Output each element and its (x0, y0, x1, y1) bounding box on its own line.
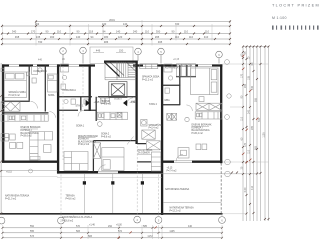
svg-text:730: 730 (38, 40, 43, 44)
washer X-boxes right unit (167, 113, 172, 120)
svg-text:340: 340 (12, 30, 17, 34)
entry canopy outline (90, 47, 133, 64)
svg-text:292: 292 (108, 225, 113, 228)
wall right izba bottom (163, 104, 181, 106)
svg-text:120: 120 (118, 35, 123, 39)
svg-text:572: 572 (118, 230, 123, 233)
living room label blocks (21, 124, 213, 138)
svg-text:583: 583 (88, 235, 93, 238)
kitchen counter right (195, 112, 222, 119)
small bed second room left unit (48, 74, 58, 92)
svg-text:118: 118 (89, 30, 94, 34)
stair cut diagonal (105, 62, 137, 77)
svg-text:GARDEROBA: GARDEROBA (178, 65, 193, 68)
svg-text:468: 468 (15, 35, 20, 39)
svg-text:KUPAONICA: KUPAONICA (34, 70, 48, 73)
bath wall middle unit (59, 109, 97, 111)
svg-text:+0,15: +0,15 (6, 172, 13, 174)
wall mid bath divider (80, 97, 82, 111)
stair west wall (89, 64, 91, 111)
chairs right unit (196, 144, 201, 150)
dim extension verticals (3, 20, 231, 46)
wardrobe X room2 (93, 143, 100, 159)
door arc stair entry (127, 98, 133, 104)
wall bedroom/bath left unit (28, 65, 30, 101)
svg-text:P=9,6 m2: P=9,6 m2 (66, 199, 77, 201)
svg-text:NATKRIVENA TERASA: NATKRIVENA TERASA (165, 188, 190, 191)
svg-text:P=21,0 m2: P=21,0 m2 (5, 199, 17, 201)
shelf right unit top (199, 97, 204, 102)
svg-text:P=12,2 m2: P=12,2 m2 (170, 211, 182, 213)
svg-text:170: 170 (244, 142, 247, 147)
kitchen counter middle (97, 112, 127, 119)
svg-text:P=6,2 m2: P=6,2 m2 (101, 104, 112, 106)
svg-text:293: 293 (35, 22, 40, 26)
svg-text:555: 555 (254, 97, 257, 102)
terrace post line A (83, 174, 85, 214)
svg-text:TERASA: TERASA (66, 195, 76, 198)
svg-text:BLAGOVAONICA: BLAGOVAONICA (78, 140, 97, 143)
terrace post line C (112, 174, 114, 214)
svg-text:540: 540 (258, 117, 261, 122)
coffee table left (44, 145, 51, 153)
svg-text:1105: 1105 (169, 230, 175, 233)
svg-text:2001: 2001 (109, 18, 115, 22)
grid bubble C bottom (134, 216, 141, 223)
column terrace B (141, 181, 144, 184)
door leaf prostorija (127, 137, 134, 145)
party wall 1 (57, 64, 59, 173)
svg-text:P=24,2 m2: P=24,2 m2 (78, 144, 90, 146)
svg-text:IZBA: IZBA (165, 99, 171, 102)
corridor cabinets middle unit (101, 98, 105, 103)
window double lines in top wall gaps (9, 65, 212, 174)
chairs left (10, 134, 16, 140)
terrace line right block (164, 202, 222, 204)
svg-text:730: 730 (175, 22, 180, 26)
svg-text:+0,15: +0,15 (167, 168, 174, 170)
small level texts near top wall (38, 58, 180, 61)
svg-text:P=28,6 m2: P=28,6 m2 (21, 136, 33, 138)
svg-text:KUPAONICA: KUPAONICA (63, 89, 77, 92)
svg-text:110: 110 (240, 116, 243, 120)
svg-text:DIZALO: DIZALO (114, 98, 122, 101)
terrace step line left (0, 170, 58, 172)
grid bubble D bottom (155, 217, 162, 224)
svg-text:135: 135 (36, 35, 41, 39)
svg-text:M 1:100: M 1:100 (272, 16, 287, 20)
svg-text:293: 293 (244, 83, 247, 88)
wall prostorija (137, 144, 151, 162)
svg-text:585: 585 (143, 225, 148, 228)
svg-text:BLAGOVAONICA: BLAGOVAONICA (21, 132, 40, 135)
svg-text:440: 440 (188, 225, 193, 228)
wardrobe X left unit (1, 102, 20, 111)
svg-text:295: 295 (251, 125, 254, 130)
axis circle right c (225, 115, 230, 120)
svg-text:+0,15: +0,15 (173, 58, 180, 61)
door arc mid bath (78, 110, 84, 116)
grid bubble A bottom (0, 216, 225, 224)
svg-text:140: 140 (116, 30, 121, 34)
svg-text:ZA ODMOR: ZA ODMOR (138, 152, 151, 155)
door arc terrace middle (99, 165, 106, 172)
dim ticks rows (1, 21, 231, 46)
canopy dim labels (96, 48, 124, 52)
top dimension block (2, 22, 230, 45)
bath fixtures right (164, 64, 172, 72)
svg-text:140: 140 (76, 35, 81, 39)
stair treads (117, 62, 128, 78)
bed left unit (4, 72, 26, 98)
sofa corner middle (64, 152, 88, 171)
dim line row 4 (2, 38, 230, 40)
level circle terrace (29, 169, 33, 173)
svg-text:400: 400 (251, 85, 254, 90)
door lines south middle (98, 171, 118, 173)
svg-text:P=2,4 m2: P=2,4 m2 (149, 128, 160, 130)
svg-text:P=26,4 m2: P=26,4 m2 (192, 133, 204, 135)
south wall middle unit (57, 171, 163, 173)
washbasin circle middle (98, 122, 103, 127)
svg-text:110: 110 (205, 30, 210, 34)
svg-text:170: 170 (240, 73, 243, 78)
svg-text:DNEVNI BORAVAK: DNEVNI BORAVAK (192, 124, 213, 127)
svg-text:SOBA 1: SOBA 1 (76, 124, 85, 127)
pillows left bed (6, 73, 15, 79)
bed right unit (191, 68, 218, 95)
graphic scale bar (272, 26, 319, 30)
bottom dim line 1 (2, 227, 223, 229)
column terrace A (83, 181, 86, 184)
step rect left (30, 156, 40, 159)
dim line row 3 (2, 33, 230, 35)
dim line row 5 (2, 43, 230, 45)
wall right closet (186, 65, 188, 77)
svg-text:170: 170 (31, 30, 36, 34)
door arc right izba (186, 105, 192, 111)
svg-text:NATKRIVENA TERASA: NATKRIVENA TERASA (170, 207, 195, 210)
svg-text:P=12,5 m2: P=12,5 m2 (9, 95, 21, 97)
tall wardrobe X mid-right (147, 141, 161, 150)
wall under bedroom left (2, 100, 30, 102)
south boundary dark line (0, 213, 223, 215)
dim numbers (12, 18, 210, 44)
sofa L left unit (30, 132, 53, 160)
svg-text:SPAVAĆA SOBA: SPAVAĆA SOBA (142, 76, 160, 79)
table right unit (178, 148, 189, 158)
svg-text:130: 130 (102, 22, 107, 26)
bottom dim line 2 (2, 232, 223, 234)
section arrow marker left (86, 100, 90, 106)
pillows right bed (211, 70, 217, 80)
svg-text:410: 410 (204, 35, 209, 39)
svg-text:410: 410 (251, 185, 254, 190)
section arrow marker right (123, 100, 127, 106)
svg-text:583: 583 (254, 145, 257, 150)
axis circle right d (225, 159, 231, 165)
terrace lower edge line middle (57, 176, 162, 178)
right dim stubs from plan (223, 64, 269, 214)
left exterior wall (2, 64, 4, 162)
svg-text:HODNIK: HODNIK (101, 101, 110, 103)
axis circle right b (227, 94, 231, 98)
svg-text:240: 240 (133, 30, 138, 34)
bottom dim numbers (30, 225, 193, 238)
right dim ticks (231, 46, 270, 221)
elevator shaft (109, 82, 127, 98)
stair block top wall (104, 60, 138, 62)
svg-text:110: 110 (247, 149, 250, 153)
svg-text:446: 446 (38, 58, 43, 61)
svg-text:105: 105 (247, 75, 250, 80)
stair landing line (105, 78, 136, 80)
svg-text:PROSTORIJA: PROSTORIJA (138, 149, 153, 152)
bed room2 (102, 148, 124, 171)
corridor wall middle unit (59, 96, 138, 98)
terrace front edge line (57, 173, 258, 175)
kitchen wall left unit (2, 112, 49, 114)
dining table left (1, 134, 9, 141)
svg-text:+0,15: +0,15 (94, 102, 101, 104)
svg-text:295: 295 (155, 35, 160, 39)
svg-text:SOBA 2: SOBA 2 (101, 133, 110, 136)
svg-text:0,00: 0,00 (244, 187, 247, 192)
bottom red ticks (81, 226, 157, 238)
svg-text:570: 570 (76, 225, 81, 228)
grid bubble A top (60, 47, 223, 63)
bottom dim ticks (2, 227, 224, 239)
wall right unit bath (163, 84, 181, 86)
grid bubble D top (158, 48, 165, 55)
south wall left unit (2, 161, 59, 163)
svg-text:P=7,4 m2: P=7,4 m2 (167, 170, 178, 172)
svg-text:110: 110 (184, 30, 189, 34)
svg-text:110: 110 (189, 35, 194, 39)
closet garderoba right (176, 64, 195, 76)
grid bubble C top (135, 48, 142, 55)
svg-text:110: 110 (145, 30, 150, 34)
svg-text:NADSTREŠNICA ZA VOZILA: NADSTREŠNICA ZA VOZILA (62, 216, 93, 219)
closet stack right of room (151, 152, 160, 171)
svg-text:1105: 1105 (262, 132, 265, 138)
terrace labels (5, 168, 194, 227)
kitchen X boxes right (196, 103, 222, 110)
svg-text:583: 583 (76, 230, 81, 233)
door arc wc left (50, 112, 56, 118)
svg-text:573: 573 (30, 235, 35, 238)
bath fixtures middle (61, 64, 69, 72)
svg-text:495: 495 (158, 40, 163, 44)
svg-text:552: 552 (30, 225, 35, 228)
terrace lower edge line left (0, 175, 58, 177)
svg-text:DNEVNI BORAVAK: DNEVNI BORAVAK (78, 135, 99, 138)
svg-text:KUHINJA I: KUHINJA I (21, 129, 32, 132)
stair east wall (135, 61, 137, 144)
door arc bedroom left (31, 101, 38, 108)
door arc terrace right (176, 154, 183, 161)
wall right closet bottom (176, 76, 196, 78)
svg-text:486: 486 (104, 40, 109, 44)
appliance X boxes middle (117, 113, 122, 118)
axis circle right a (225, 60, 232, 177)
svg-text:110: 110 (175, 35, 180, 39)
svg-text:SPREMIŠTE: SPREMIŠTE (149, 124, 163, 127)
svg-text:P=9,8 m2: P=9,8 m2 (101, 136, 112, 138)
wall mid room2 (93, 140, 137, 142)
window double lines south right unit (174, 161, 192, 163)
wall mid izba (95, 97, 97, 121)
svg-text:300: 300 (156, 30, 161, 34)
right exterior wall (220, 64, 222, 163)
svg-text:110: 110 (57, 30, 62, 34)
svg-text:1172: 1172 (147, 235, 153, 238)
svg-text:KUHINJA I: KUHINJA I (192, 126, 203, 129)
svg-text:180: 180 (104, 35, 109, 39)
svg-text:STAN 2: STAN 2 (149, 103, 158, 106)
axis circle right e (225, 171, 231, 177)
washbasin circle right unit (185, 117, 189, 121)
grid bubble B bottom (58, 217, 65, 224)
svg-text:STAN 1: STAN 1 (76, 105, 85, 108)
washing machine spremiste (141, 119, 147, 126)
column terrace C (111, 181, 114, 184)
svg-text:BLAGOVAONICA: BLAGOVAONICA (192, 129, 211, 132)
svg-text:446: 446 (96, 48, 101, 52)
svg-text:SOBA: SOBA (48, 94, 55, 97)
svg-text:KUHINJA I: KUHINJA I (78, 138, 89, 141)
top wall segments (2, 64, 222, 66)
svg-text:DNEVNI BORAVAK: DNEVNI BORAVAK (21, 126, 42, 129)
svg-text:140: 140 (123, 22, 128, 26)
wardrobe strip soba mid (140, 64, 158, 69)
grid bubble E bottom (219, 217, 226, 224)
svg-text:SPAVAĆA SOBA: SPAVAĆA SOBA (9, 91, 27, 94)
wall bath/wc left unit (44, 65, 46, 112)
svg-text:P=11,2 m2: P=11,2 m2 (142, 79, 154, 81)
kitchen counter left (1, 115, 48, 122)
bedside tables left bed (1, 68, 4, 71)
svg-text:150: 150 (119, 48, 124, 52)
party wall 2 (161, 64, 163, 215)
dim line row 2 (2, 25, 230, 27)
south wall right unit (161, 161, 222, 163)
terrace post line B (141, 174, 143, 214)
bottom dim line 3 (2, 237, 223, 239)
grid bubble B top (80, 47, 87, 54)
svg-text:160: 160 (50, 35, 55, 39)
svg-text:+0,00: +0,00 (116, 224, 123, 226)
grid bubble E top (216, 51, 223, 58)
svg-text:NATKRIVENA TERASA: NATKRIVENA TERASA (5, 195, 30, 198)
left dim line (0, 63, 2, 214)
dining X table middle (142, 130, 155, 139)
svg-text:TLOCRT PRIZEMLJA: TLOCRT PRIZEMLJA (272, 4, 320, 8)
svg-text:240: 240 (247, 109, 250, 114)
svg-text:+1,46: +1,46 (89, 224, 96, 226)
wall mid room2 side (92, 141, 94, 173)
right dim rotated numbers (240, 51, 265, 192)
right red ticks (242, 55, 258, 164)
svg-text:+0,15: +0,15 (130, 102, 137, 104)
right wall dashed extension (220, 163, 222, 213)
wall right bath side (179, 65, 181, 105)
svg-text:555: 555 (30, 230, 35, 233)
dim line row 1 (2001) (36, 21, 230, 23)
door arc hodnik (97, 97, 104, 104)
stair flight walls (105, 62, 117, 80)
